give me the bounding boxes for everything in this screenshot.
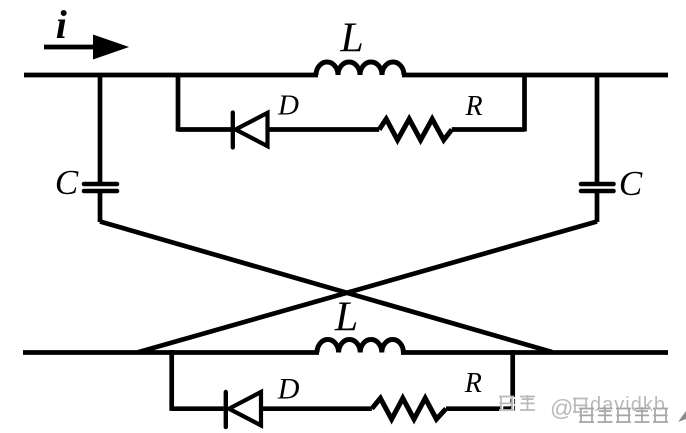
svg-text:i: i	[56, 2, 67, 47]
svg-text:C: C	[55, 163, 79, 202]
svg-text:R: R	[464, 91, 482, 122]
svg-text:L: L	[334, 295, 358, 341]
svg-text:L: L	[339, 16, 363, 62]
svg-text:D: D	[277, 373, 300, 406]
svg-text:@: @	[550, 395, 573, 421]
svg-text:D: D	[277, 90, 299, 122]
svg-text:R: R	[464, 368, 482, 399]
svg-text:C: C	[619, 164, 643, 203]
